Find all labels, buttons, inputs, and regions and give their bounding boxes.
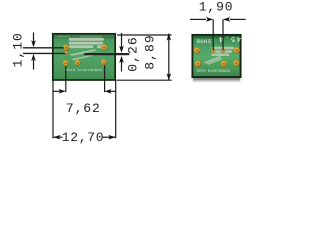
arrowhead 8,89 down (167, 73, 172, 80)
svg-text:45.4: 45.4 (217, 34, 241, 42)
pad low-middle (221, 60, 228, 67)
dim 8,89 ext line bottom (117, 79, 172, 81)
arrowhead 7,62 left (105, 89, 112, 94)
RE logo left board (69, 38, 104, 61)
pad low-left (195, 60, 202, 67)
dim 0,26 stem top (121, 33, 123, 48)
dim 1,10 arrow stem top (33, 32, 35, 42)
dim 1,90 arrow line left (190, 18, 206, 20)
dim 12,70 arrow line left (53, 136, 62, 138)
dim 1,90 ext line b (222, 19, 224, 50)
pad bottom-middle (74, 60, 80, 66)
pad mid-left (194, 47, 201, 54)
dim 1,90 arrow line right (230, 18, 246, 20)
arrowhead 1,90 left (223, 17, 230, 22)
dim 12,70 ext line right (115, 81, 117, 139)
arrowhead 12,70 right (108, 135, 115, 140)
svg-text:ROTH ELEKTRONIK: ROTH ELEKTRONIK (66, 69, 103, 73)
dim 12,70 arrow line right (103, 136, 116, 138)
svg-text:ROTH ELEKTRONIK: ROTH ELEKTRONIK (197, 70, 231, 74)
pad center-a (211, 48, 215, 52)
dim 7,62 ext line right (104, 65, 106, 92)
pad bottom-left (62, 60, 68, 66)
arrowhead 1,10 down (31, 40, 36, 47)
svg-text:1,90: 1,90 (199, 0, 234, 14)
dim 8,89 line (168, 34, 170, 81)
svg-text:8,89: 8,89 (142, 34, 157, 70)
right PCB board (192, 35, 240, 77)
arrowhead 7,62 right (59, 89, 66, 94)
arrowhead 0,26 up (119, 56, 124, 63)
dim 1,10 arrow stem bottom (33, 60, 35, 70)
svg-text:0,26: 0,26 (125, 36, 140, 72)
RE logo right board (204, 47, 234, 65)
shadow under right board (193, 78, 241, 83)
dim 7,62 arrow line right (110, 90, 116, 92)
arrowhead 1,90 right (206, 17, 213, 22)
arrowhead 12,70 left (53, 135, 60, 140)
svg-text:7,62: 7,62 (66, 101, 101, 116)
dim 7,62 ext line left (65, 66, 67, 92)
pad top-left (63, 44, 70, 51)
dim 8,89 ext line top (117, 34, 172, 36)
dim 12,70 ext line left (52, 81, 54, 139)
pad low-right (233, 60, 240, 67)
dim 1,10 ref line upper (23, 47, 64, 49)
pad center-b (221, 48, 225, 52)
0,26 measured feature thick line (85, 53, 128, 55)
pad mid-right (233, 47, 240, 54)
arrowhead 0,26 down (119, 46, 124, 53)
pad bottom-right (101, 59, 107, 65)
svg-text:1,10: 1,10 (10, 32, 25, 67)
45.4 flipped text right board (217, 34, 241, 42)
arrowhead 1,10 up (31, 54, 36, 61)
dim 7,62 arrow line left (53, 90, 60, 92)
pad top-right (101, 44, 108, 51)
arrowhead 8,89 up (167, 33, 172, 40)
left PCB board (53, 34, 115, 80)
dim 0,26 stem bottom (121, 61, 123, 71)
dim 1,10 ref line lower (23, 52, 65, 54)
pad small left (second row) (64, 51, 68, 55)
svg-text:12,70: 12,70 (62, 130, 105, 145)
svg-text:ROHS: ROHS (197, 38, 212, 45)
dim 1,90 ext line a (212, 19, 214, 50)
